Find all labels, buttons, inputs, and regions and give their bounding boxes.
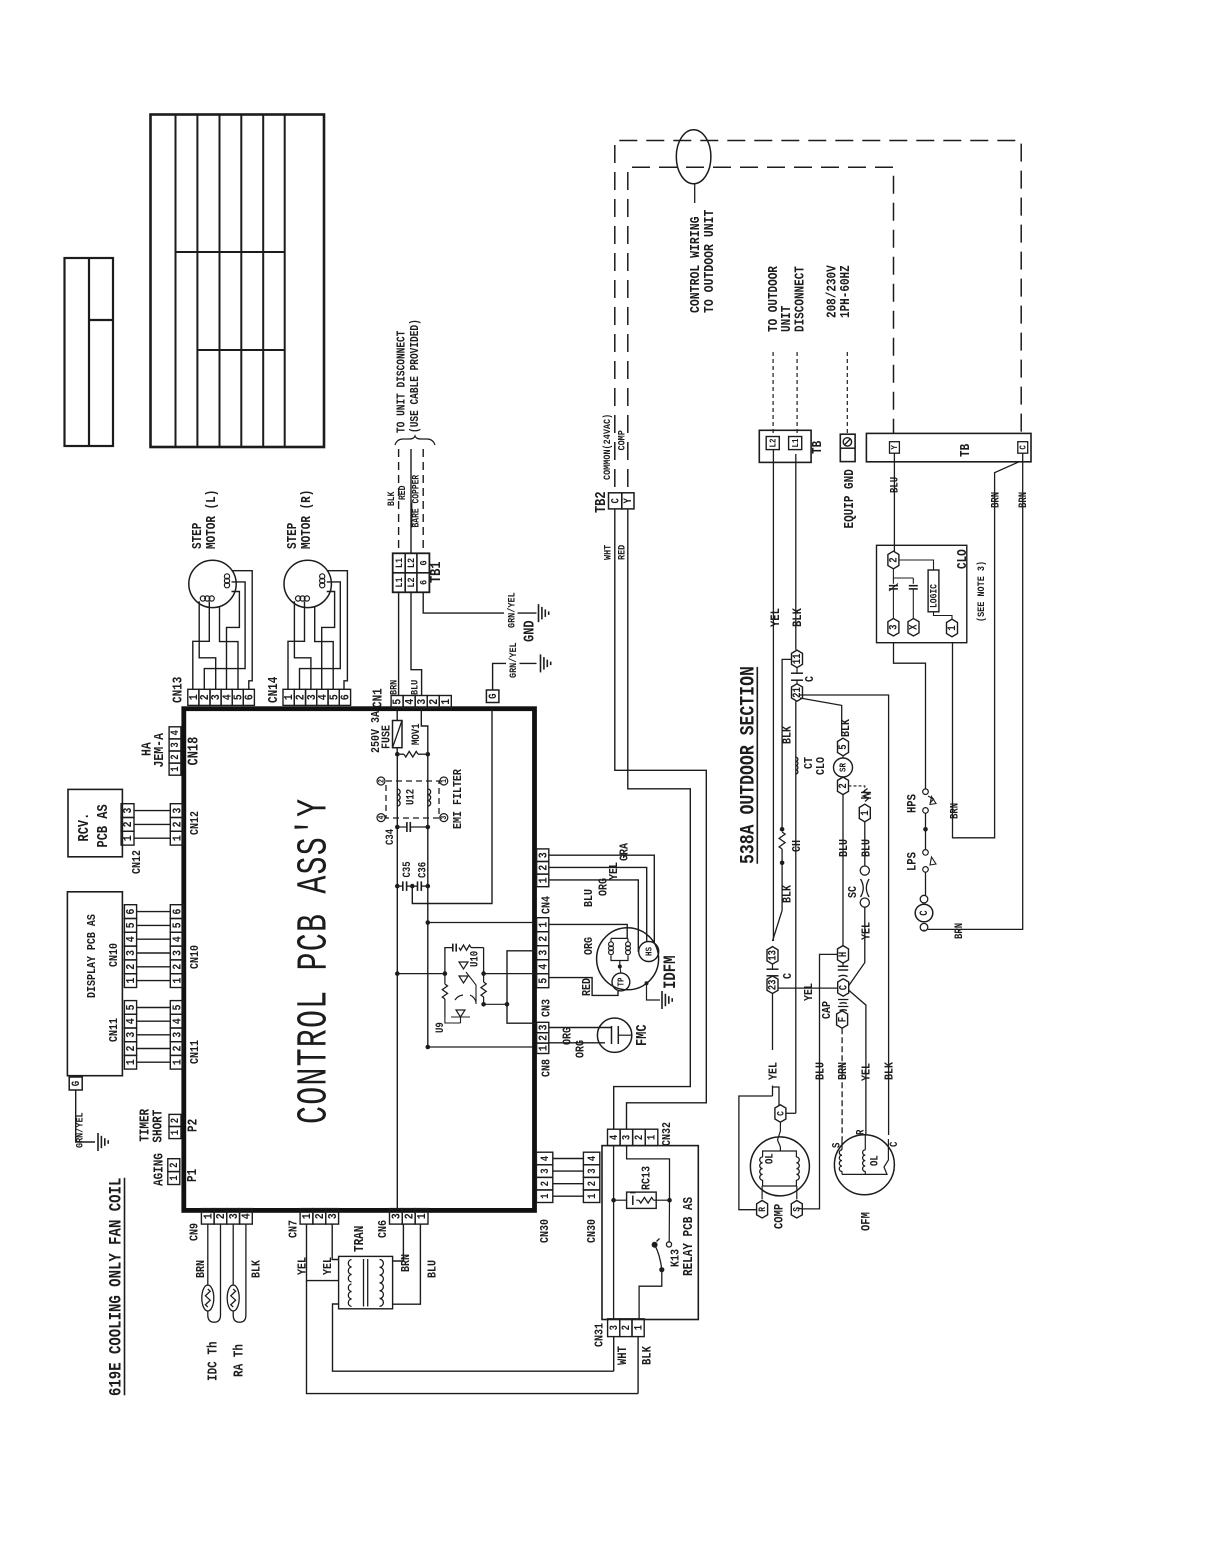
terminal block TB outdoor [866, 433, 1031, 461]
PCB rail left (L1) [396, 754, 398, 886]
connector CN8 [537, 1022, 554, 1077]
wire left rail to U10 [395, 971, 445, 976]
wire TB L2 YEL down [768, 450, 783, 941]
svg-text:3: 3 [125, 950, 138, 956]
svg-text:Y: Y [889, 445, 900, 450]
svg-text:CN10: CN10 [108, 943, 121, 967]
svg-text:1: 1 [125, 977, 138, 983]
svg-text:BLU: BLU [838, 839, 851, 857]
wire CN4 pin2 YEL to IDFM HS [549, 862, 647, 942]
label TO OUTDOOR UNIT DISCONNECT [766, 266, 808, 332]
svg-text:CH: CH [791, 840, 804, 852]
svg-text:BLU: BLU [861, 839, 874, 857]
wire TRAN to CN6 pin1 BLU [393, 1224, 440, 1304]
svg-text:1: 1 [647, 1135, 659, 1140]
wire CN8 pin1 ORG to FMC [549, 1040, 605, 1058]
connector CN4 [537, 849, 554, 914]
svg-text:OL: OL [765, 1153, 777, 1164]
label RED at TB2 [616, 544, 628, 560]
thermistor RA Th [227, 1224, 247, 1377]
wire rail to CN3 pin1 [428, 922, 533, 924]
wire TB C to contactor coil BRN [928, 453, 1031, 939]
wire rail to CN6 pin3 [396, 886, 398, 1208]
step motor R [284, 490, 331, 608]
svg-text:COMP: COMP [772, 1204, 787, 1229]
svg-text:RC13: RC13 [641, 1166, 654, 1190]
svg-text:CN11: CN11 [189, 1040, 202, 1064]
svg-text:2: 2 [125, 1045, 138, 1051]
connector CN12 on PCB [170, 804, 202, 845]
wire TB C to CLO terminal 1 BRN [950, 462, 1019, 838]
svg-text:RCV.: RCV. [77, 813, 93, 842]
svg-text:5: 5 [538, 977, 551, 983]
transformer TRAN [339, 1226, 393, 1309]
svg-text:BLK: BLK [782, 885, 795, 903]
connector CN18 [169, 727, 203, 775]
svg-text:GRA: GRA [619, 843, 632, 861]
svg-text:CLO: CLO [815, 757, 828, 775]
svg-text:2: 2 [171, 1118, 183, 1123]
svg-text:1: 1 [172, 1059, 185, 1065]
svg-text:X: X [909, 624, 921, 630]
svg-text:TO OUTDOOR UNIT: TO OUTDOOR UNIT [701, 209, 717, 313]
svg-text:RED: RED [581, 978, 594, 996]
svg-text:G: G [71, 1081, 83, 1086]
grounding box G on PCB [486, 690, 500, 703]
current transformer CT CLO [796, 757, 829, 775]
svg-text:5: 5 [125, 922, 138, 928]
wire CN3 pin5 RED to IDFM TP [549, 978, 618, 996]
svg-text:6: 6 [125, 908, 138, 914]
svg-text:5: 5 [172, 922, 185, 928]
svg-text:3: 3 [172, 1032, 185, 1038]
wire CN3 pin1 BLU to IDFM coil [549, 889, 628, 941]
svg-text:1: 1 [172, 977, 185, 983]
svg-text:LOGIC: LOGIC [929, 583, 940, 608]
wire TB1 G to chassis ground GND [423, 592, 539, 642]
svg-text:RELAY PCB AS: RELAY PCB AS [681, 1197, 696, 1276]
svg-text:5: 5 [172, 1004, 185, 1010]
svg-text:1: 1 [587, 1194, 599, 1199]
relay PCB AS box [602, 1146, 698, 1320]
svg-text:Y: Y [623, 498, 635, 503]
wire TB Y to CLO terminal 2 BLU [890, 453, 902, 551]
svg-text:BRN: BRN [837, 1062, 850, 1080]
svg-text:U10: U10 [470, 951, 482, 967]
step motor L [189, 490, 236, 608]
svg-text:6: 6 [172, 908, 185, 914]
svg-text:BLK: BLK [387, 491, 398, 506]
wire TB1 L1 to CN1 pin5 BRN [388, 592, 400, 695]
wire TRAN to CN6 pin2 BRN [393, 1224, 414, 1272]
svg-text:C: C [611, 498, 623, 503]
wire 23 down to compressor C YEL [768, 994, 781, 1107]
svg-text:2: 2 [587, 1181, 599, 1186]
svg-text:BRN: BRN [400, 1254, 413, 1272]
svg-text:C: C [776, 1111, 787, 1116]
svg-text:BARE COPPER: BARE COPPER [411, 474, 422, 527]
wire rail to CN8 pin1 [426, 886, 534, 1049]
svg-text:619E COOLING ONLY FAN COIL: 619E COOLING ONLY FAN COIL [106, 1178, 126, 1396]
svg-text:2: 2 [172, 964, 185, 970]
wire 21 to SR BLK [800, 698, 853, 737]
svg-text:RED: RED [397, 486, 408, 500]
dashed field wires to TB L2 L1 [773, 352, 797, 437]
IDFM ground [645, 981, 673, 1009]
svg-text:13: 13 [768, 950, 780, 961]
svg-text:CN3: CN3 [541, 999, 554, 1017]
svg-text:SR: SR [838, 762, 849, 772]
svg-text:CN30: CN30 [586, 1219, 599, 1243]
svg-text:3: 3 [889, 625, 901, 630]
svg-text:4: 4 [587, 1156, 599, 1161]
wire TRAN to relay long WHT return [333, 1304, 614, 1371]
label BLK at CN31 [640, 1345, 655, 1365]
svg-text:1: 1 [440, 699, 453, 705]
svg-text:4: 4 [378, 815, 387, 819]
svg-text:YEL: YEL [861, 1063, 874, 1081]
svg-text:U9: U9 [435, 1022, 447, 1033]
wire SR 2 to H BLU [838, 795, 851, 947]
DISPLAY PCB AS box [67, 892, 122, 1076]
connector CN31 [594, 1319, 646, 1347]
label CONTROL WIRING TO OUTDOOR UNIT [687, 209, 717, 313]
EMI filter U12 [377, 769, 465, 829]
dashed control wiring boundary inner [628, 167, 894, 487]
svg-text:U12: U12 [406, 789, 418, 805]
svg-text:L1: L1 [393, 577, 405, 587]
svg-text:H: H [839, 952, 851, 957]
connector CN11 on PCB [170, 1001, 202, 1070]
wire C35/C36 common to G box [395, 709, 492, 904]
capacitor C34 [385, 822, 430, 845]
svg-text:YEL: YEL [297, 1257, 310, 1275]
connector CN13 [171, 677, 257, 706]
svg-text:BRN: BRN [991, 492, 1003, 508]
wire CN31 pin1 BLK return [637, 1337, 639, 1394]
svg-text:1: 1 [171, 1130, 183, 1135]
wire 21 to CT coil [795, 701, 797, 1113]
svg-text:WHT: WHT [602, 544, 614, 560]
svg-text:C: C [804, 676, 817, 682]
svg-text:3: 3 [172, 807, 185, 813]
svg-text:BRN: BRN [1018, 492, 1030, 508]
svg-text:CN31: CN31 [594, 1323, 607, 1347]
svg-text:1: 1 [860, 810, 872, 815]
svg-text:DISCONNECT: DISCONNECT [793, 266, 808, 332]
wire CN4 pin3 GRA to IDFM HS [549, 843, 655, 944]
wire CN32 pin4 to outdoor RED [614, 509, 691, 1129]
svg-text:HS: HS [644, 947, 655, 956]
wire CN31 pin3 WHT return [613, 1337, 615, 1372]
svg-text:C: C [782, 973, 795, 979]
wire COMP S to H BLU [797, 954, 838, 1209]
svg-text:CN4: CN4 [541, 896, 554, 914]
svg-text:HPS: HPS [905, 794, 920, 813]
svg-text:ORG: ORG [598, 878, 611, 896]
svg-text:1: 1 [172, 835, 185, 841]
svg-text:2: 2 [171, 754, 183, 759]
svg-text:1: 1 [538, 1045, 551, 1051]
svg-text:2: 2 [538, 1035, 551, 1041]
svg-text:SHORT: SHORT [151, 1110, 166, 1143]
start relay SR [834, 738, 853, 794]
svg-text:P2: P2 [186, 1119, 201, 1132]
svg-text:IDFM: IDFM [661, 955, 681, 989]
svg-text:G: G [488, 694, 500, 699]
svg-text:2: 2 [125, 964, 138, 970]
svg-text:BRN: BRN [950, 803, 962, 819]
svg-text:2: 2 [172, 821, 185, 827]
fuse 250V 3A [370, 709, 402, 755]
wire YEL to COMP R [739, 1096, 773, 1210]
svg-text:1: 1 [948, 625, 960, 630]
wire 21 to OFM C BLK [800, 695, 897, 1135]
svg-text:CLO: CLO [955, 549, 970, 569]
wire TB1 L2 to CN1 pin3 BLU [409, 592, 422, 695]
revision table (large) [151, 115, 325, 448]
crankcase heater CH branch [773, 659, 805, 941]
jumper P1 [168, 1159, 201, 1185]
wire display G to ground GRN/YEL [74, 1090, 95, 1148]
wire CN8 pin3 ORG to FMC [549, 1027, 612, 1045]
svg-text:TRAN: TRAN [352, 1226, 367, 1252]
svg-text:BLK: BLK [840, 719, 853, 737]
wire CN7 pin1 to relay long BLK return [307, 1281, 639, 1394]
svg-text:4: 4 [241, 1213, 254, 1219]
label COMMON(24VAC) [601, 414, 613, 480]
svg-text:PCB AS: PCB AS [96, 804, 112, 847]
PCB rail right (L2) [427, 754, 429, 886]
svg-text:TO UNIT DISCONNECT: TO UNIT DISCONNECT [396, 330, 409, 433]
connector CN30 on PCB [536, 1152, 552, 1243]
svg-text:IDC Th: IDC Th [206, 1341, 221, 1381]
svg-text:CN10: CN10 [189, 945, 202, 969]
revision table (small) [65, 258, 114, 446]
svg-text:BRN: BRN [388, 679, 400, 695]
svg-text:CN6: CN6 [377, 1220, 390, 1238]
svg-text:C: C [839, 985, 851, 990]
wire CAP F to OFM S BRN [837, 1028, 850, 1140]
svg-text:CN9: CN9 [189, 1223, 202, 1241]
svg-text:L1: L1 [393, 558, 405, 568]
svg-text:TB: TB [810, 440, 825, 454]
svg-text:1: 1 [122, 835, 135, 841]
svg-text:RA Th: RA Th [232, 1344, 247, 1377]
terminal block TB1 [393, 553, 446, 592]
label WHT at CN31 [615, 1346, 630, 1365]
wires CN10 to CN10 [137, 912, 171, 981]
svg-text:K13: K13 [670, 1249, 683, 1267]
svg-text:C: C [889, 1142, 901, 1147]
svg-text:R: R [856, 1130, 868, 1135]
field wire BLK dashed to TB1 [387, 449, 399, 553]
svg-text:CN8: CN8 [541, 1059, 554, 1077]
svg-text:TB: TB [958, 443, 973, 457]
svg-text:2: 2 [540, 1181, 552, 1186]
opto driver U10 [442, 944, 486, 1018]
svg-text:BLU: BLU [427, 1260, 440, 1278]
svg-text:CN7: CN7 [288, 1220, 301, 1238]
svg-text:C35: C35 [402, 861, 414, 877]
cable ellipse [676, 130, 711, 203]
svg-text:BLK: BLK [782, 726, 795, 744]
wires CN30 to CN30 [553, 1159, 584, 1197]
svg-text:C: C [920, 910, 932, 915]
wire TB L1 BLK down [790, 454, 805, 650]
svg-text:COMP: COMP [616, 430, 628, 451]
svg-text:G: G [418, 560, 430, 565]
svg-text:3: 3 [172, 950, 185, 956]
wire 23 to CAP C YEL [778, 983, 838, 1001]
resistor capacitor network RC13 [614, 1166, 670, 1209]
svg-text:CN1: CN1 [371, 688, 386, 708]
wire CAP C to OFM R YEL [849, 990, 875, 1135]
svg-text:YEL: YEL [803, 983, 816, 1001]
opto coupler U9 [435, 995, 476, 1033]
svg-text:4: 4 [125, 936, 138, 942]
terminal block TB outdoor disconnect [759, 430, 825, 462]
svg-text:5: 5 [839, 744, 851, 749]
svg-text:3: 3 [538, 1024, 551, 1030]
connector CN11 on display board [124, 1001, 138, 1070]
svg-text:YEL: YEL [768, 608, 783, 627]
svg-text:2: 2 [172, 1045, 185, 1051]
svg-text:GRN/YEL: GRN/YEL [74, 1112, 86, 1148]
connector CN12 on RCV board [121, 804, 144, 874]
grounding box G on display board [69, 1077, 83, 1090]
svg-text:CN14: CN14 [266, 677, 281, 703]
svg-text:FMC: FMC [635, 1024, 651, 1046]
svg-text:SC: SC [847, 886, 860, 898]
svg-text:JEM-A: JEM-A [151, 733, 167, 768]
svg-text:WHT: WHT [615, 1346, 630, 1365]
wire CN1 pin3 into PCB rail [421, 708, 428, 755]
svg-text:CONTROL PCB ASS'Y: CONTROL PCB ASS'Y [291, 798, 340, 1124]
svg-text:TB1: TB1 [429, 561, 445, 583]
svg-text:1: 1 [540, 1194, 552, 1199]
ground symbol at TB1 [539, 604, 549, 622]
connector CN10 on display board [124, 905, 138, 988]
relay contact K13 [639, 1200, 683, 1319]
label TIMER SHORT [138, 1108, 166, 1142]
svg-text:6: 6 [418, 580, 430, 585]
svg-text:1: 1 [171, 766, 183, 771]
connector CN10 on PCB [170, 905, 202, 988]
svg-text:BLU: BLU [890, 477, 902, 493]
svg-text:BLU: BLU [583, 889, 596, 907]
svg-text:3: 3 [441, 816, 450, 820]
svg-text:YEL: YEL [861, 922, 874, 940]
svg-text:LPS: LPS [905, 852, 920, 871]
capacitor C36 [407, 862, 430, 891]
svg-text:FUSE: FUSE [381, 725, 394, 749]
thermistor IDC Th [202, 1224, 221, 1381]
wire CN7 pin3 to TRAN [332, 1224, 338, 1259]
svg-text:4: 4 [171, 730, 183, 735]
wires CN14 to step motor R [288, 571, 347, 690]
svg-text:2: 2 [538, 865, 551, 871]
svg-text:3: 3 [171, 742, 183, 747]
relay internal rail CN32-4 to CN31-3 [613, 1146, 615, 1319]
CLO internal wiring [889, 560, 952, 619]
pressure switch HPS [894, 643, 937, 850]
svg-text:2: 2 [538, 935, 551, 941]
svg-text:GRN/YEL: GRN/YEL [506, 592, 518, 628]
wire BLK to COMP C [786, 1112, 796, 1114]
herm terminal H [838, 946, 851, 977]
jumper P2 [169, 1114, 201, 1138]
timer CLO box [877, 545, 988, 642]
svg-text:AGING: AGING [152, 1153, 167, 1186]
contactor contact C 13-23 [767, 947, 796, 994]
svg-text:S: S [832, 1143, 844, 1148]
svg-text:EMI FILTER: EMI FILTER [452, 769, 465, 829]
svg-text:OFM: OFM [859, 1212, 874, 1231]
svg-text:BLK: BLK [790, 607, 805, 627]
svg-text:(SEE NOTE 3): (SEE NOTE 3) [975, 561, 987, 622]
pressure switch LPS [905, 850, 936, 896]
connector CN3 [537, 918, 554, 1017]
wires CN13 to step motor L [193, 571, 252, 690]
svg-text:3: 3 [125, 1032, 138, 1038]
start capacitor branch SC [847, 786, 874, 986]
wires CN12 to CN12 [134, 811, 170, 839]
svg-text:11: 11 [793, 654, 805, 665]
svg-text:BLU: BLU [409, 679, 421, 695]
label AGING [152, 1153, 167, 1186]
svg-text:L2: L2 [405, 577, 417, 587]
svg-text:6: 6 [244, 694, 257, 700]
brace and note TO UNIT DISCONNECT [395, 319, 435, 445]
title 619E COOLING ONLY FAN COIL [106, 1178, 126, 1396]
svg-text:2: 2 [378, 779, 387, 783]
svg-text:4: 4 [538, 963, 551, 969]
svg-text:1: 1 [125, 1059, 138, 1065]
svg-text:C: C [1018, 445, 1029, 450]
svg-text:1PH-60HZ: 1PH-60HZ [838, 265, 853, 318]
svg-text:4: 4 [540, 1156, 552, 1161]
svg-text:CN32: CN32 [661, 1122, 674, 1146]
run capacitor CAP [821, 979, 851, 1028]
svg-text:3: 3 [540, 1168, 552, 1173]
EQUIP GND terminal [840, 352, 857, 528]
svg-text:BLK: BLK [251, 1260, 264, 1278]
svg-text:6: 6 [340, 694, 353, 700]
label HA JEM-A [138, 733, 167, 768]
terminal block TB2 [594, 491, 635, 513]
svg-text:BRN: BRN [195, 1260, 208, 1278]
svg-text:5: 5 [125, 1004, 138, 1010]
label WHT at TB2 [602, 544, 614, 560]
svg-text:GRN/YEL: GRN/YEL [507, 642, 519, 678]
field wire RED to TB1 [397, 449, 411, 553]
label BRN at CN9 [195, 1260, 208, 1278]
svg-text:3: 3 [327, 1213, 340, 1219]
svg-text:TP: TP [616, 977, 627, 986]
wire CN4 pin1 ORG to IDFM coil [549, 878, 639, 952]
svg-text:1: 1 [538, 921, 551, 927]
svg-text:RED: RED [616, 544, 628, 560]
svg-text:C34: C34 [385, 829, 397, 845]
svg-text:CAP: CAP [821, 1001, 834, 1019]
svg-text:DISPLAY PCB AS: DISPLAY PCB AS [86, 914, 99, 998]
label ORG at CN3 [583, 937, 596, 955]
svg-text:CN30: CN30 [539, 1219, 552, 1243]
label COMP [616, 430, 628, 451]
connector CN30 on relay board [583, 1152, 599, 1243]
compressor COMP [750, 1105, 809, 1229]
